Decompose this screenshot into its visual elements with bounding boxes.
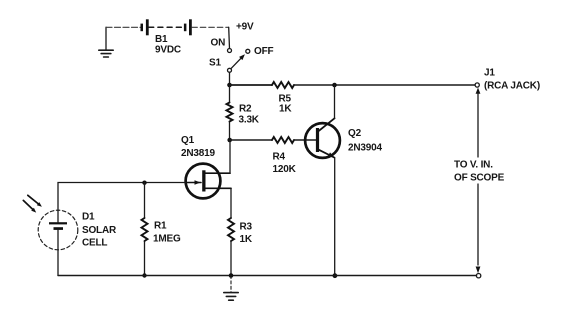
wire (top rail left segment) (230, 84, 273, 86)
svg-text:J1: J1 (484, 67, 495, 78)
svg-text:CELL: CELL (82, 238, 107, 249)
ground (top left) (99, 27, 113, 57)
wire (Q2 emitter down to bottom rail) (334, 158, 336, 276)
node (junction Q2 collector / top rail) (332, 83, 337, 88)
wire (switch to top rail) (229, 72, 231, 85)
node (junction R2 bottom / mid rail) (227, 138, 232, 143)
svg-text:TO V. IN.: TO V. IN. (454, 160, 493, 171)
wire (right rail upper) (477, 93, 479, 157)
svg-text:B1: B1 (155, 34, 168, 45)
svg-text:ON: ON (211, 38, 226, 49)
wire (bottom rail) (58, 275, 477, 277)
transistor Q2 2N3904 (305, 118, 382, 158)
svg-text:3.3K: 3.3K (239, 115, 260, 126)
svg-text:R3: R3 (240, 222, 253, 233)
node (junction R3 / bottom rail) (229, 273, 234, 278)
wire (corner down to switch) (228, 27, 231, 48)
solar cell D1 (38, 210, 117, 275)
svg-text:2N3819: 2N3819 (181, 148, 215, 159)
wire (Q1 drain up to mid rail) (229, 140, 231, 173)
wire (Q2 collector up to top rail) (334, 85, 336, 119)
wire (right rail lower with arrow) (476, 184, 481, 273)
svg-text:1MEG: 1MEG (153, 234, 181, 245)
svg-text:Q1: Q1 (181, 135, 195, 146)
transistor Q1 2N3819 (181, 135, 231, 198)
wire (mid rail to R4) (230, 139, 273, 141)
node (junction R1 top / gate rail) (142, 181, 146, 185)
resistor R5 1K (272, 82, 294, 115)
battery B1 9VDC (141, 19, 192, 55)
svg-text:9VDC: 9VDC (155, 44, 181, 55)
resistor R3 1K (228, 218, 253, 276)
svg-text:R4: R4 (273, 152, 286, 163)
svg-text:S1: S1 (209, 57, 221, 68)
node (output terminal bottom right) (476, 274, 480, 278)
wire (gate rail from solar cell to Q1) (58, 183, 186, 211)
switch S1 (209, 38, 273, 73)
wire (R4 to Q2 base) (294, 139, 316, 141)
node (junction R1 bottom / bottom rail) (142, 273, 146, 277)
node label TO V. IN. OF SCOPE (454, 160, 505, 184)
svg-text:(RCA JACK): (RCA JACK) (484, 81, 540, 92)
wire (top rail right segment to J1) (294, 84, 475, 86)
svg-text:SOLAR: SOLAR (82, 225, 117, 236)
ground (bottom) (224, 276, 238, 301)
wire (battery to +9V corner) (192, 26, 229, 28)
wire (ground to battery) (106, 26, 140, 28)
svg-text:OFF: OFF (254, 46, 273, 57)
svg-text:1K: 1K (279, 104, 292, 115)
svg-text:2N3904: 2N3904 (348, 143, 382, 154)
light arrows (into solar cell) (23, 195, 42, 212)
svg-text:1K: 1K (240, 234, 253, 245)
connector J1 (RCA JACK) (475, 67, 540, 93)
resistor R2 3.3K (227, 85, 260, 140)
node (junction R2/top rail) (227, 83, 232, 88)
node (junction emitter / bottom rail) (333, 273, 338, 278)
wire (Q1 source down to R3) (230, 188, 232, 218)
svg-text:R2: R2 (239, 104, 252, 115)
svg-text:R1: R1 (154, 221, 167, 232)
resistor R4 120K (272, 137, 297, 175)
svg-text:D1: D1 (82, 212, 95, 223)
svg-text:Q2: Q2 (348, 128, 362, 139)
resistor R1 1MEG (142, 183, 181, 276)
svg-text:+9V: +9V (236, 22, 254, 33)
svg-text:120K: 120K (273, 164, 297, 175)
svg-text:OF SCOPE: OF SCOPE (454, 172, 505, 183)
